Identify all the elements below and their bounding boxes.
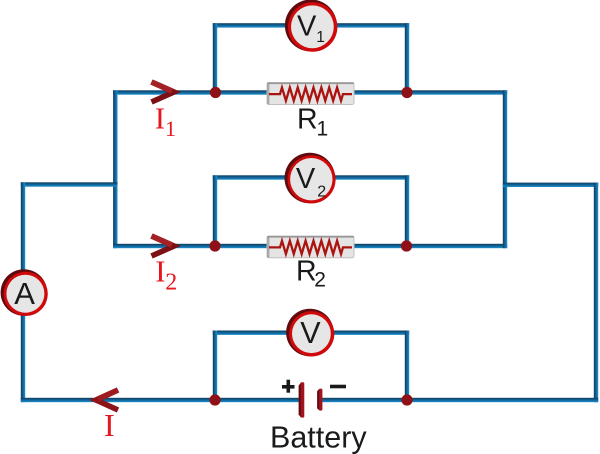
wire left split vertical: [113, 90, 117, 248]
svg-text:2: 2: [314, 269, 326, 292]
svg-text:A: A: [14, 276, 35, 311]
svg-text:I: I: [104, 407, 115, 443]
svg-text:Battery: Battery: [270, 421, 367, 454]
svg-text:I: I: [155, 253, 165, 288]
wire I2 branch left of R2: [113, 244, 267, 248]
node R1 output junction: [401, 87, 412, 98]
current arrow I: [96, 390, 118, 410]
wire R2 branch right segment: [354, 244, 507, 248]
svg-text:V: V: [300, 316, 321, 350]
node R2 output junction: [401, 240, 412, 251]
wire left feed horizontal: [21, 182, 118, 186]
wire right outer vertical: [594, 183, 598, 403]
svg-text:2: 2: [165, 270, 177, 296]
wire right vertical of V2 loop: [405, 175, 409, 248]
svg-text:V: V: [297, 10, 317, 42]
current arrow I1: [152, 82, 175, 102]
node R2 input junction: [209, 240, 220, 251]
svg-text:R: R: [297, 104, 318, 136]
battery plus terminal label: [282, 380, 295, 393]
wire left vertical of V1 loop: [213, 23, 217, 95]
wire top of V loop: [213, 331, 409, 335]
svg-text:1: 1: [317, 118, 329, 141]
wire left vertical through ammeter: [21, 182, 25, 402]
battery minus terminal label: [330, 385, 346, 389]
svg-text:1: 1: [316, 29, 325, 46]
svg-text:I: I: [155, 101, 165, 136]
voltmeter V1: [285, 0, 338, 52]
wire I1 branch left of R1: [113, 90, 267, 94]
wire right feed horizontal: [503, 183, 598, 187]
wire bottom right of battery: [322, 398, 598, 402]
current arrow I2: [152, 236, 175, 256]
wire left vertical of V loop: [213, 331, 217, 403]
battery BT1: [299, 382, 323, 417]
node R1 input junction: [210, 87, 221, 98]
voltmeter V: [286, 309, 334, 357]
wire top of V2 loop: [213, 175, 409, 179]
svg-text:2: 2: [317, 184, 326, 201]
resistor R2: [267, 236, 354, 258]
wire bottom left of battery: [21, 398, 300, 402]
label I1: [155, 101, 176, 141]
wire right vertical of V1 loop: [405, 23, 409, 95]
wire right merge vertical: [503, 90, 507, 248]
wire top of V1 loop: [213, 23, 409, 27]
voltmeter V2: [285, 153, 336, 204]
label R2: [296, 255, 326, 291]
label I2: [155, 253, 177, 295]
ammeter A: [1, 269, 48, 316]
node battery right junction: [401, 394, 412, 405]
label R1: [297, 104, 328, 141]
wire right vertical of V loop: [405, 331, 409, 403]
wire left vertical of V2 loop: [213, 175, 217, 248]
node battery left junction: [209, 394, 220, 405]
svg-text:V: V: [296, 163, 316, 195]
resistor R1: [267, 83, 354, 105]
svg-text:1: 1: [165, 116, 176, 141]
wire R1 branch right segment: [354, 90, 507, 94]
